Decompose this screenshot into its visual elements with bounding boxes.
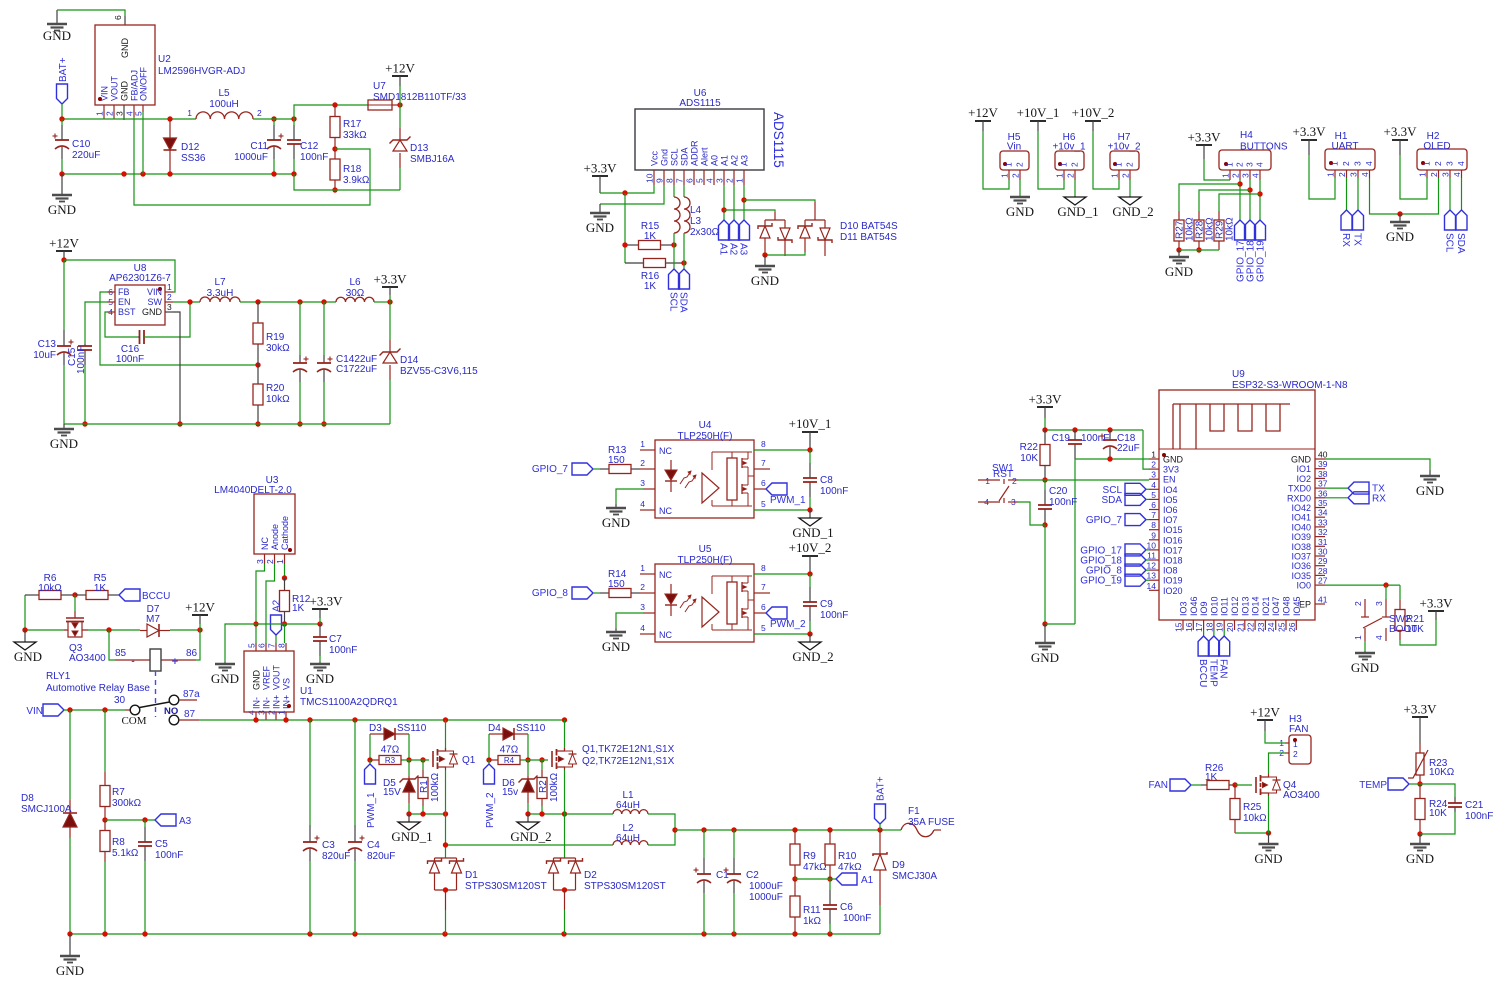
svg-text:3: 3 [640, 602, 645, 612]
svg-text:AO3400: AO3400 [1283, 790, 1320, 801]
svg-text:3: 3 [1353, 161, 1363, 166]
ground H4 [1178, 250, 1180, 257]
svg-text:D4: D4 [488, 723, 501, 734]
svg-text:47Ω: 47Ω [500, 745, 519, 756]
svg-text:A3: A3 [179, 816, 192, 827]
svg-text:4: 4 [1374, 635, 1384, 640]
wire SW node [173, 301, 200, 303]
ground U3/U1 [224, 662, 226, 664]
svg-text:4: 4 [640, 623, 645, 633]
svg-text:U4: U4 [699, 420, 712, 431]
svg-text:41: 41 [1318, 595, 1328, 605]
svg-text:+3.3V: +3.3V [1420, 596, 1454, 611]
svg-text:C1: C1 [716, 870, 729, 881]
svg-text:1: 1 [1221, 173, 1231, 178]
svg-text:A2: A2 [730, 155, 740, 166]
wire Q3 drain to D7 [88, 629, 140, 631]
svg-text:1K: 1K [94, 583, 107, 594]
ground bottom of C10 rail [61, 174, 63, 195]
resistor R24 [1419, 784, 1421, 799]
gate row PWM_1 [367, 757, 372, 762]
svg-text:C10: C10 [72, 139, 91, 150]
svg-text:VS: VS [282, 678, 292, 690]
svg-text:47Ω: 47Ω [381, 745, 400, 756]
resistor R18 [334, 149, 336, 159]
svg-text:IO47: IO47 [1271, 596, 1281, 616]
svg-text:R11: R11 [803, 905, 821, 916]
inductor L3 on SDA [683, 185, 685, 197]
svg-text:SMD1812B110TF/33: SMD1812B110TF/33 [373, 92, 467, 103]
wire L5 to C11/C12 [253, 118, 294, 120]
wire U3 anode to VREF [266, 564, 275, 643]
svg-text:47kΩ: 47kΩ [803, 862, 827, 873]
ground H1/H2 [1399, 214, 1401, 222]
svg-text:D12: D12 [181, 142, 200, 153]
svg-text:C11: C11 [250, 141, 268, 152]
svg-text:1K: 1K [292, 603, 305, 614]
svg-text:5: 5 [761, 499, 766, 509]
svg-text:GND: GND [1416, 483, 1444, 498]
svg-text:4: 4 [640, 499, 645, 509]
wire R21 to +3.3V [1400, 620, 1436, 645]
gnd rail under U2 [62, 173, 294, 175]
svg-text:C21: C21 [1465, 800, 1484, 811]
svg-text:1: 1 [95, 111, 105, 116]
svg-text:+12V: +12V [385, 61, 415, 76]
U5 pin stubs [640, 573, 655, 575]
svg-text:C8: C8 [820, 475, 833, 486]
svg-text:BZV55-C3V6,115: BZV55-C3V6,115 [400, 366, 478, 377]
svg-text:+: + [172, 656, 178, 668]
svg-text:R3: R3 [385, 756, 396, 765]
svg-text:35: 35 [1318, 498, 1328, 508]
svg-text:ADS1115: ADS1115 [771, 112, 786, 168]
svg-text:NC: NC [659, 506, 672, 516]
resistor R17 [334, 105, 336, 117]
resistor R27 [1178, 211, 1180, 220]
diode zener D5 [408, 760, 410, 776]
svg-text:ON/OFF: ON/OFF [139, 67, 149, 101]
svg-text:3: 3 [115, 111, 125, 116]
resistor R8 [104, 820, 106, 831]
svg-text:100nF: 100nF [820, 486, 848, 497]
node Q3 source gnd [25, 629, 64, 631]
svg-text:30Ω: 30Ω [346, 288, 365, 299]
svg-text:150: 150 [608, 579, 625, 590]
node VIN-in rail [62, 118, 196, 120]
svg-text:A2: A2 [272, 599, 283, 612]
wire FB to divider [100, 292, 258, 365]
svg-text:32: 32 [1318, 527, 1328, 537]
svg-text:R20: R20 [266, 383, 285, 394]
capacitor C3 [309, 720, 311, 825]
inductor L6 [336, 297, 374, 302]
svg-text:100kΩ: 100kΩ [549, 772, 560, 802]
svg-text:IO17: IO17 [1163, 545, 1183, 555]
wire cap gnd rail down [1074, 459, 1076, 624]
svg-text:1: 1 [735, 178, 745, 183]
svg-text:IO18: IO18 [1163, 556, 1183, 566]
hier label A1 [830, 878, 836, 880]
inductor L5 [196, 112, 253, 119]
svg-text:BAT+: BAT+ [58, 57, 69, 82]
wire H7 pin1 to power [1093, 131, 1119, 189]
wire H3 pin2 to Q4 drain [1269, 753, 1286, 774]
resistor gate R4 [489, 759, 498, 761]
ground H6 [1074, 196, 1076, 197]
resistor R14 [600, 592, 609, 594]
svg-text:7: 7 [761, 582, 766, 592]
svg-text:GND_1: GND_1 [391, 829, 432, 844]
diode D10 dual schottky [774, 212, 776, 220]
svg-text:4: 4 [1360, 172, 1370, 177]
wire drain column D3 [445, 720, 447, 750]
svg-text:+10v_2: +10v_2 [1107, 142, 1141, 153]
svg-text:3: 3 [640, 478, 645, 488]
U4 internals [670, 460, 672, 470]
relay dashed actuator line [155, 671, 157, 717]
svg-text:30: 30 [1318, 547, 1328, 557]
svg-text:2: 2 [1353, 601, 1363, 606]
wire drain column D4 [564, 720, 566, 750]
svg-text:L5: L5 [218, 88, 230, 99]
svg-text:U7: U7 [373, 81, 386, 92]
svg-text:NC: NC [260, 537, 270, 550]
svg-text:R9: R9 [803, 851, 816, 862]
svg-text:38: 38 [1318, 469, 1328, 479]
svg-text:C12: C12 [300, 141, 319, 152]
svg-text:NC: NC [659, 630, 672, 640]
svg-text:C9: C9 [820, 599, 833, 610]
svg-text:A3: A3 [738, 243, 749, 256]
svg-text:1: 1 [277, 710, 287, 715]
wire R26 to gate [1235, 784, 1252, 786]
svg-text:14: 14 [1147, 581, 1157, 591]
svg-text:21: 21 [1235, 622, 1245, 632]
svg-text:2: 2 [1151, 460, 1156, 470]
hier label SCL [1449, 178, 1451, 210]
relay armature [140, 702, 170, 708]
source rail GND_1 [409, 813, 446, 815]
capacitor C6 [829, 879, 831, 890]
wire pin8 to +10V_1 [754, 449, 810, 451]
svg-text:2: 2 [257, 108, 262, 118]
svg-text:RLY1: RLY1 [46, 671, 71, 682]
U5 internals [670, 584, 672, 594]
svg-text:IO8: IO8 [1163, 566, 1178, 576]
svg-text:Alert: Alert [700, 147, 710, 166]
svg-text:+10V_1: +10V_1 [789, 416, 832, 431]
svg-text:6: 6 [761, 602, 766, 612]
svg-text:30: 30 [114, 695, 126, 706]
svg-text:IO1: IO1 [1296, 464, 1311, 474]
wire H4 pin4 [1259, 180, 1261, 220]
connector H6 body [1055, 151, 1084, 170]
U4 pin stubs [640, 449, 655, 451]
wire H4 pin1 to 3V3 [1204, 159, 1230, 180]
svg-text:C3: C3 [322, 840, 335, 851]
svg-text:5: 5 [247, 643, 257, 648]
svg-text:+10V_2: +10V_2 [789, 540, 832, 555]
svg-text:2: 2 [1293, 749, 1298, 759]
svg-text:1: 1 [640, 439, 645, 449]
svg-text:100nF: 100nF [116, 354, 144, 365]
svg-text:5.1kΩ: 5.1kΩ [112, 848, 139, 859]
svg-text:UART: UART [1331, 141, 1358, 152]
wire R15/R16 column [624, 193, 626, 263]
resistor R15 [625, 244, 639, 246]
svg-text:Q2,TK72E12N1,S1X: Q2,TK72E12N1,S1X [582, 756, 675, 767]
ground under diodes [764, 255, 766, 266]
U9 EP pin [1315, 603, 1325, 605]
hier label A3 [155, 814, 176, 826]
svg-text:3: 3 [1241, 173, 1251, 178]
capacitor C18 [1109, 430, 1111, 440]
svg-text:1: 1 [640, 563, 645, 573]
svg-text:+3.3V: +3.3V [374, 272, 408, 287]
svg-text:5: 5 [761, 623, 766, 633]
svg-text:10: 10 [645, 173, 655, 183]
diode D9 zener TVS [879, 830, 881, 854]
ground U6 [599, 204, 601, 213]
wire A1 down [723, 185, 725, 220]
ground H5 [1019, 196, 1021, 197]
capacitor C4 [354, 720, 356, 825]
svg-text:10kΩ: 10kΩ [266, 394, 290, 405]
svg-text:IO7: IO7 [1163, 515, 1178, 525]
hier label PWM_1 [754, 488, 766, 490]
svg-text:IO0: IO0 [1296, 581, 1311, 591]
svg-text:D11 BAT54S: D11 BAT54S [840, 232, 897, 243]
svg-text:1000uF: 1000uF [234, 152, 268, 163]
svg-text:3: 3 [715, 178, 725, 183]
capacitor C7 [319, 624, 321, 637]
svg-text:1kΩ: 1kΩ [803, 916, 822, 927]
svg-text:IO35: IO35 [1291, 571, 1311, 581]
svg-text:EN: EN [118, 297, 131, 307]
svg-text:820uF: 820uF [322, 851, 350, 862]
svg-text:33: 33 [1318, 517, 1328, 527]
wire gnd branch left [225, 624, 256, 662]
svg-text:IO41: IO41 [1291, 513, 1311, 523]
svg-text:100nF: 100nF [329, 645, 357, 656]
svg-text:3: 3 [167, 302, 172, 312]
resistor gate R3 [370, 759, 379, 761]
svg-text:64uH: 64uH [616, 800, 640, 811]
svg-text:5: 5 [1151, 490, 1156, 500]
capacitor C11 [273, 119, 275, 125]
svg-text:22uF: 22uF [1117, 443, 1140, 454]
svg-text:IO12: IO12 [1230, 596, 1240, 616]
svg-text:GND: GND [56, 963, 84, 978]
svg-text:Q1: Q1 [462, 755, 476, 766]
H3 pin stubs [1285, 742, 1289, 744]
svg-text:C19: C19 [1052, 433, 1071, 444]
svg-text:7: 7 [761, 458, 766, 468]
H7 pin stubs [1118, 170, 1120, 180]
wire SW2 to gnd [1364, 641, 1366, 651]
ic U6 body [635, 109, 764, 170]
wire IO0 node [1325, 584, 1400, 586]
U9 right pins [1315, 458, 1325, 460]
wire diode anodes to gnd [765, 252, 805, 255]
resistor R7 [104, 710, 106, 772]
svg-text:300kΩ: 300kΩ [112, 798, 142, 809]
svg-text:IO4: IO4 [1163, 485, 1178, 495]
svg-text:IO6: IO6 [1163, 505, 1178, 515]
inductor L1 [565, 813, 614, 815]
gate row PWM_2 [486, 757, 491, 762]
svg-text:2: 2 [1125, 162, 1135, 167]
svg-text:10kΩ: 10kΩ [1243, 813, 1267, 824]
svg-text:SS110: SS110 [397, 723, 427, 734]
wire H4 pin3 [1249, 180, 1251, 220]
svg-text:4: 4 [247, 710, 257, 715]
ground Q4 [1268, 833, 1270, 844]
svg-text:10K: 10K [1429, 808, 1447, 819]
svg-text:5: 5 [134, 111, 144, 116]
svg-text:C4: C4 [367, 840, 380, 851]
svg-text:IO11: IO11 [1220, 597, 1230, 616]
source rail GND_2 [528, 813, 565, 815]
svg-text:A1: A1 [720, 155, 730, 166]
svg-text:33kΩ: 33kΩ [343, 130, 367, 141]
svg-text:820uF: 820uF [367, 851, 395, 862]
svg-text:34: 34 [1318, 508, 1328, 518]
svg-text:Gnd: Gnd [660, 149, 670, 166]
svg-text:10uF: 10uF [33, 350, 56, 361]
svg-text:H4: H4 [1240, 130, 1253, 141]
svg-text:3V3: 3V3 [1163, 465, 1179, 475]
svg-text:Automotive Relay Base: Automotive Relay Base [46, 683, 150, 694]
svg-text:COM: COM [121, 715, 146, 727]
svg-text:BUTTONS: BUTTONS [1240, 142, 1288, 153]
svg-text:SDA: SDA [1455, 233, 1466, 254]
connector H3 body [1289, 735, 1311, 764]
svg-text:10KΩ: 10KΩ [1429, 767, 1455, 778]
svg-text:19: 19 [1215, 622, 1225, 632]
svg-text:3: 3 [1349, 172, 1359, 177]
svg-text:D8: D8 [21, 793, 34, 804]
ground ESP32 left [1044, 624, 1046, 643]
svg-text:+12V: +12V [49, 236, 79, 251]
svg-text:GND: GND [14, 649, 42, 664]
ground U4 input side [615, 504, 617, 508]
wire 3V3 to Vcc [600, 185, 654, 193]
hier label A2 on VOUT [275, 635, 277, 643]
svg-text:15V: 15V [383, 787, 401, 798]
svg-text:35A FUSE: 35A FUSE [908, 817, 955, 828]
svg-text:A0: A0 [710, 155, 720, 166]
svg-text:100nF: 100nF [820, 610, 848, 621]
svg-text:R19: R19 [266, 332, 285, 343]
svg-text:100uH: 100uH [209, 99, 238, 110]
svg-text:F1: F1 [908, 806, 920, 817]
svg-text:GND: GND [1254, 851, 1282, 866]
gnd rail U8 [64, 423, 390, 425]
svg-text:IO9: IO9 [1199, 601, 1209, 616]
capacitor C19 [1074, 430, 1076, 440]
hier label PWM_1 [369, 760, 371, 764]
svg-text:SMCJ30A: SMCJ30A [892, 871, 937, 882]
main gnd rail bottom [70, 933, 880, 935]
svg-text:2: 2 [1011, 173, 1021, 178]
svg-text:1: 1 [1326, 172, 1336, 177]
svg-text:R8: R8 [112, 837, 125, 848]
svg-text:LM2596HVGR-ADJ: LM2596HVGR-ADJ [158, 66, 245, 77]
ic U9 body [1159, 390, 1315, 620]
svg-text:IO42: IO42 [1291, 503, 1311, 513]
svg-text:2: 2 [1429, 172, 1439, 177]
resistor R10 [829, 830, 831, 844]
wire R6 to Q3 gate [74, 595, 76, 611]
svg-text:PWM_2: PWM_2 [770, 619, 806, 630]
svg-text:GND: GND [120, 38, 130, 59]
ground GND_2 [527, 814, 529, 822]
svg-text:LM4040DELT-2.0: LM4040DELT-2.0 [214, 485, 292, 496]
wire GND to U2 pin6 [57, 10, 125, 16]
diode D3 [369, 734, 371, 760]
svg-text:TLP250H(F): TLP250H(F) [677, 555, 732, 566]
capacitor C21 [1420, 784, 1455, 797]
svg-text:100nF: 100nF [843, 913, 871, 924]
svg-text:6: 6 [113, 15, 123, 20]
svg-text:RX: RX [1372, 493, 1386, 504]
svg-text:GND: GND [142, 307, 163, 317]
svg-text:23: 23 [1256, 622, 1266, 632]
resistor R21 [1399, 585, 1401, 600]
svg-text:C5: C5 [155, 839, 168, 850]
connector H1 body [1325, 149, 1375, 170]
svg-text:ADDR: ADDR [690, 140, 700, 166]
svg-text:GND: GND [1386, 229, 1414, 244]
svg-text:GND: GND [1006, 204, 1034, 219]
svg-text:39: 39 [1318, 459, 1328, 469]
svg-text:IO45: IO45 [1292, 596, 1302, 616]
svg-text:IO21: IO21 [1261, 596, 1271, 616]
svg-text:GND: GND [602, 515, 630, 530]
svg-text:6: 6 [1151, 500, 1156, 510]
capacitor C10 [61, 119, 63, 125]
svg-text:SS36: SS36 [181, 153, 206, 164]
svg-text:1: 1 [1055, 173, 1065, 178]
resistor R1 gate-source [422, 760, 424, 770]
wire rail to 3V3 pin [1143, 430, 1149, 469]
svg-text:SS110: SS110 [516, 723, 546, 734]
svg-text:L4: L4 [690, 205, 702, 216]
svg-text:IN+: IN+ [282, 695, 292, 709]
svg-text:BST: BST [118, 307, 136, 317]
svg-text:1: 1 [275, 559, 285, 564]
svg-text:SMBJ16A: SMBJ16A [410, 154, 455, 165]
svg-text:U1: U1 [300, 686, 313, 697]
EN wire [1018, 479, 1149, 481]
svg-text:8: 8 [1151, 520, 1156, 530]
svg-text:2: 2 [1066, 173, 1076, 178]
svg-text:17: 17 [1194, 622, 1204, 632]
wire H6 pin1 to power [1038, 131, 1064, 189]
svg-text:VREF: VREF [262, 665, 272, 690]
svg-text:1: 1 [1004, 162, 1014, 167]
svg-text:R2: R2 [538, 780, 549, 793]
svg-text:18: 18 [1204, 622, 1214, 632]
svg-text:16: 16 [1184, 622, 1194, 632]
svg-text:3: 3 [257, 710, 267, 715]
svg-text:IO5: IO5 [1163, 495, 1178, 505]
gnd rail to pin1 [1075, 458, 1149, 460]
svg-text:36: 36 [1318, 488, 1328, 498]
resistor R2 gate-source [541, 760, 543, 770]
